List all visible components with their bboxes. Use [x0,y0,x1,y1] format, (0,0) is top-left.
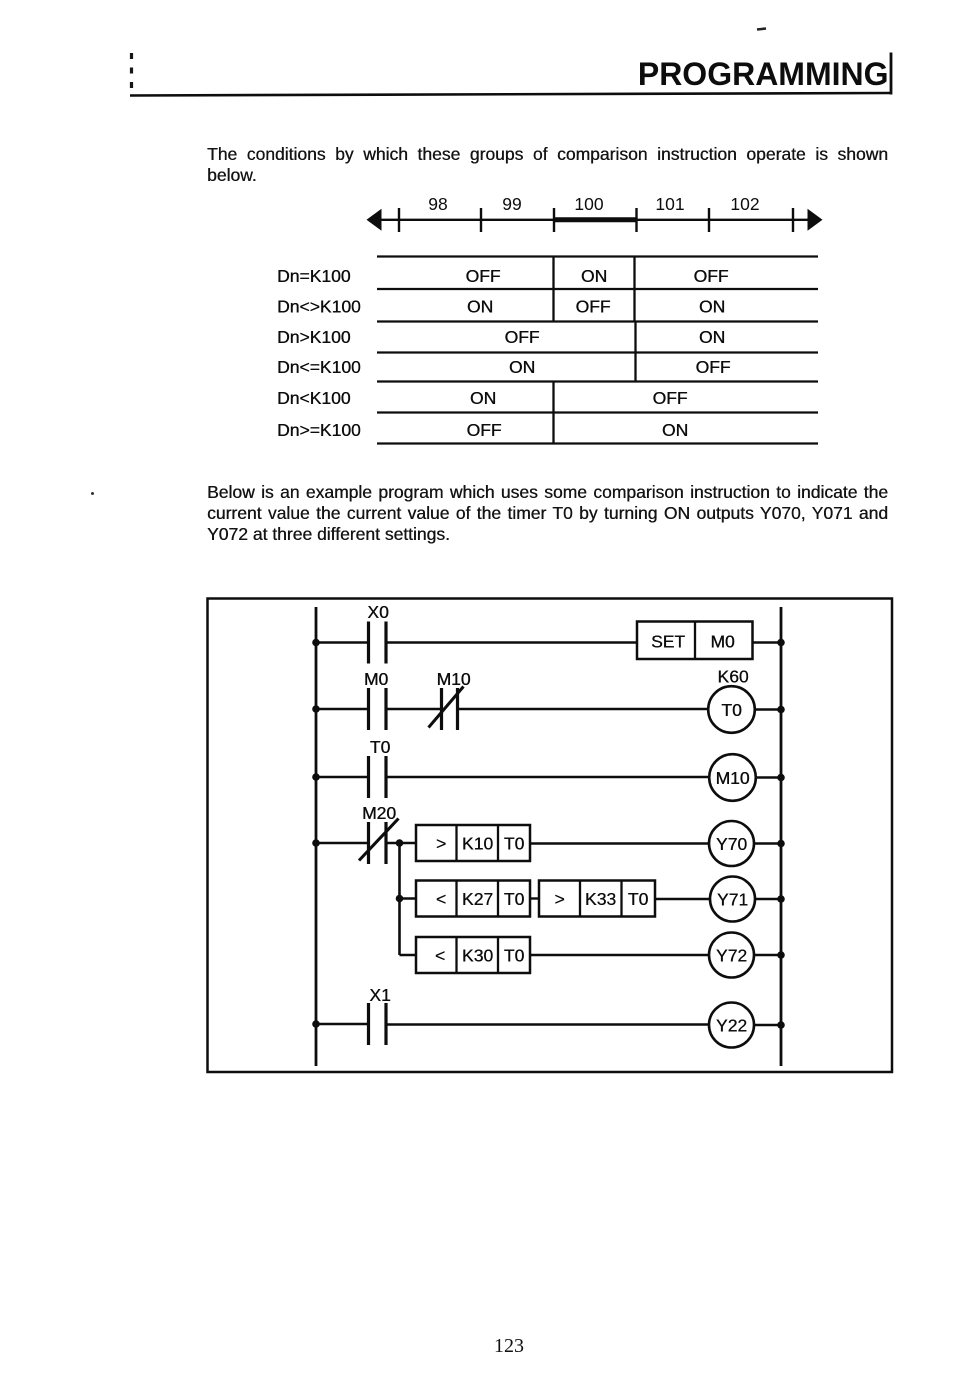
svg-text:M0: M0 [710,632,735,652]
junction dot rung5 left [312,1020,320,1028]
wire rung1 right [752,641,781,643]
svg-text:K27: K27 [462,889,493,909]
right arrowhead [808,209,823,231]
timeline and comparison table [0,0,965,470]
coil Y22 [709,1003,754,1048]
junction dot Y72 right [777,951,785,959]
tick 2 [480,208,482,232]
junction dot rung1 right [777,639,785,647]
junction dot Y22 right [777,1021,785,1029]
svg-text:SET: SET [651,632,685,652]
junction dot rung1 left [312,639,320,647]
stray dot left margin [91,492,94,495]
table divider rows5-6 [552,382,554,444]
table horizontal rule 1 [377,255,818,257]
svg-text:T0: T0 [628,889,649,909]
tick 6 [792,208,794,232]
wire rung1 left [316,641,368,643]
contact X0 [369,622,387,664]
svg-text:K30: K30 [462,946,493,966]
svg-text:K60: K60 [717,667,748,687]
compare block < K27 T0 [416,881,530,917]
ladder frame box [208,599,893,1073]
svg-text:<: < [436,889,446,909]
page number [494,1335,524,1358]
wire rung5 to coil [386,1023,709,1025]
svg-text:T0: T0 [721,700,742,720]
svg-text:>: > [436,834,446,854]
table divider rows1-2 left [552,257,554,322]
coil Y70 [709,821,754,866]
bold segment under 100 [554,217,637,222]
coil Y72 [709,933,754,978]
junction dot rung2 left [312,705,320,713]
table horizontal rule 6 [377,411,818,413]
header right vertical bar [890,53,893,95]
left power rail [315,607,318,1066]
wire compare3 to Y71 [655,898,710,900]
svg-text:X1: X1 [369,985,390,1005]
stray mark top [757,29,766,30]
svg-text:Y70: Y70 [716,834,747,854]
wire rung5 left [316,1023,368,1025]
tick 3 [553,208,555,232]
junction dot rung4 left [312,839,320,847]
table horizontal rule 3 [377,320,818,322]
svg-text:T0: T0 [504,889,525,909]
table horizontal rule 7 [377,442,818,444]
tick 1 [398,208,400,232]
svg-text:Y22: Y22 [716,1016,747,1036]
timeline axis [370,219,818,221]
svg-text:T0: T0 [504,834,525,854]
paragraph 2 [207,482,888,545]
wire rung4 left [316,842,368,844]
wire Y70 right [754,842,781,844]
wire Y71 right [755,898,781,900]
wire rung3 right [756,776,781,778]
branch vertical wire [398,843,401,955]
svg-text:X0: X0 [367,602,389,622]
wire compare1 to Y70 [530,842,709,844]
compare block > K10 T0 [416,825,530,861]
svg-text:T0: T0 [370,737,391,757]
right power rail [780,607,783,1066]
contact X1 [369,1003,387,1045]
header underline [130,93,892,96]
junction dot rung2 right [777,706,785,714]
wire branch to compare2 [400,897,417,899]
wire branch to compare4 [400,954,417,956]
svg-text:M0: M0 [364,669,389,689]
wire rung2 right [755,708,781,710]
svg-text:>: > [554,889,564,909]
wire between compare2 and compare3 [530,897,539,899]
header rule and PROGRAMMING title [0,0,965,130]
svg-text:K33: K33 [585,889,616,909]
wire M20 to branch node [386,842,416,844]
junction dot Y71 right [777,895,785,903]
ladder logic diagram [0,0,965,1100]
wire rung1 middle [386,641,637,643]
junction dot rung3 right [777,774,785,782]
svg-text:M10: M10 [715,768,749,788]
contact M0 [369,688,387,730]
tick 4 [635,208,637,232]
svg-text:K10: K10 [462,834,493,854]
coil T0 [708,686,755,733]
wire rung2 to coil [458,708,709,710]
table horizontal rule 5 [377,380,818,382]
junction dot branch middle [396,895,404,903]
table divider rows3-4 [634,322,636,382]
contact M20 (NC) [359,819,399,865]
wire compare4 to Y72 [530,954,709,956]
svg-text:Y71: Y71 [717,890,748,910]
contact T0 [369,756,387,798]
junction dot rung3 left [312,773,320,781]
wire rung2 between contacts [386,708,441,710]
paragraph 1 [207,144,888,186]
wire Y22 right [754,1024,781,1026]
coil M10 [709,754,756,801]
junction dot branch top [396,839,404,847]
svg-text:<: < [435,946,445,966]
dashed left margin line [130,53,133,90]
SET M0 instruction box [637,622,753,660]
contact M10 (NC) [429,687,464,731]
svg-text:T0: T0 [504,946,525,966]
wire rung3 left [316,776,368,778]
coil Y71 [710,877,755,922]
compare block < K30 T0 [416,937,530,973]
left arrowhead [367,209,382,231]
wire rung2 left [316,708,368,710]
table horizontal rule 2 [377,288,818,290]
table horizontal rule 4 [377,351,818,353]
tick 5 [708,208,710,232]
junction dot Y70 right [777,840,785,848]
svg-text:M10: M10 [436,669,470,689]
svg-text:M20: M20 [362,803,396,823]
compare block > K33 T0 [539,881,655,917]
wire rung3 to coil [386,776,710,778]
table divider rows1-2 right [633,257,635,322]
wire Y72 right [754,954,781,956]
svg-text:Y72: Y72 [716,946,747,966]
